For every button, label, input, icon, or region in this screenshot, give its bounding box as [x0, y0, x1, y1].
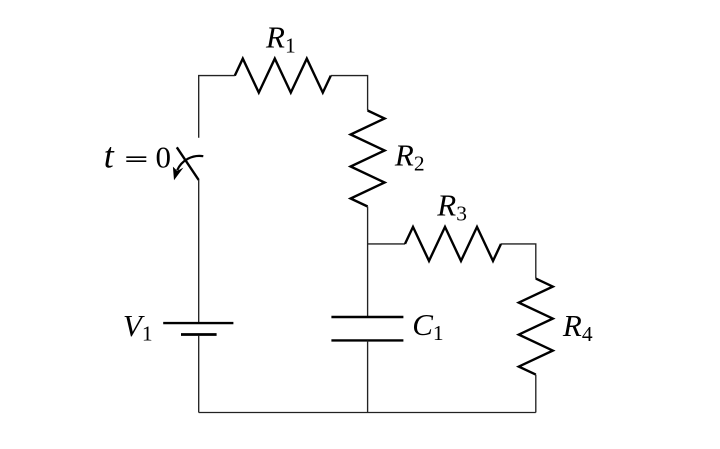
resistor R4	[519, 279, 553, 375]
wire R4 bottom to bottom rail	[535, 375, 537, 413]
wire bottom rail	[199, 412, 536, 414]
wire R1 right to R2 top	[331, 76, 368, 111]
wire switch bottom to battery top	[198, 180, 200, 322]
wire battery bottom to bottom rail	[198, 336, 200, 413]
wire top-left corner (switch top to R1 left lead)	[199, 76, 235, 138]
node junction (R2/C1/R3)	[368, 243, 405, 245]
label t = 0	[104, 135, 171, 175]
switch SW (opens at t=0)	[173, 147, 203, 180]
svg-text:t: t	[104, 135, 115, 175]
wire R3 right to R4 top	[501, 244, 536, 279]
resistor R1	[235, 59, 331, 93]
switch blade	[177, 147, 199, 180]
switch motion arc	[177, 156, 203, 170]
wire C1 bottom to bottom rail	[367, 340, 369, 412]
svg-text:0: 0	[156, 139, 172, 174]
wire R2 bottom through node to C1 top	[367, 207, 369, 318]
capacitor C1	[331, 317, 403, 340]
switch arrowhead	[173, 167, 184, 181]
resistor R2	[351, 111, 385, 207]
battery V1	[163, 323, 233, 334]
resistor R3	[405, 227, 501, 261]
